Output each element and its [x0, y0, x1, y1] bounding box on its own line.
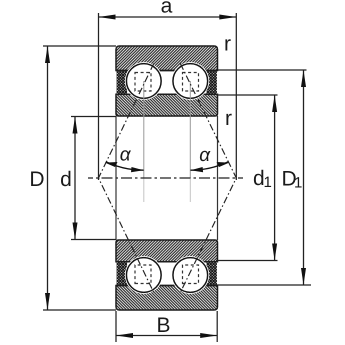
- alpha arc right: [191, 162, 229, 170]
- svg-text:α: α: [120, 145, 132, 166]
- dim a: line: [99, 16, 237, 18]
- dim D1: extension lines: [218, 69, 307, 71]
- dim d: extension lines: [71, 116, 116, 118]
- svg-text:α: α: [199, 145, 211, 166]
- contact line right: [180, 64, 236, 293]
- bore edge right: [217, 116, 219, 240]
- alpha arc left: [106, 162, 144, 170]
- svg-text:B: B: [156, 314, 170, 337]
- svg-text:d: d: [60, 168, 72, 191]
- radial line left: [143, 81, 145, 178]
- svg-text:D: D: [29, 168, 44, 191]
- centerline axis: [88, 177, 243, 179]
- svg-text:1: 1: [294, 175, 302, 192]
- dim d1: extension lines: [218, 94, 278, 96]
- dim D1: line: [303, 70, 305, 285]
- contact line left: [99, 64, 154, 293]
- svg-text:a: a: [161, 0, 173, 18]
- dim B: line: [116, 335, 217, 337]
- radial line right: [189, 81, 191, 178]
- svg-text:1: 1: [264, 174, 272, 191]
- svg-text:r: r: [225, 107, 232, 130]
- dim D: extension lines: [43, 45, 116, 47]
- svg-text:r: r: [224, 33, 231, 56]
- dim a: extension lines: [98, 13, 100, 180]
- dim d1: line: [274, 95, 276, 261]
- dim D: line: [47, 46, 49, 310]
- dim d: line: [74, 117, 76, 240]
- bore edge left: [115, 116, 117, 240]
- dim B: extension lines: [115, 311, 117, 342]
